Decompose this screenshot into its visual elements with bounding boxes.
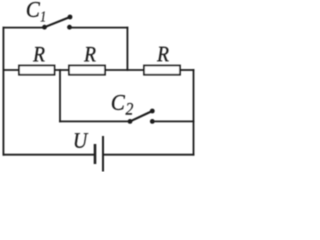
switch C2 blade end dot (150, 109, 155, 114)
wire right lead of R3 (180, 69, 194, 71)
label C2 subscript 2 (126, 103, 134, 115)
label C1 subscript 1 (40, 11, 44, 21)
resistor R1 (19, 66, 55, 75)
switch C1 right contact dot (67, 25, 72, 30)
wire top right (switch C1 to corner) (70, 27, 128, 29)
switch C2 left contact dot (128, 119, 133, 124)
wire between R1 and R2 (55, 69, 70, 71)
wire C2 row left (60, 120, 130, 122)
wire right vertical (193, 70, 195, 155)
label R of R2 (84, 47, 96, 61)
label C1 letter C (27, 2, 40, 17)
label R of R3 (157, 47, 169, 61)
battery short plate (negative) (94, 144, 97, 164)
resistor R3 (144, 66, 180, 75)
wire bottom right (battery to right) (103, 154, 194, 156)
switch C2 blade (130, 111, 152, 121)
wire C2 row right (152, 120, 193, 122)
switch C1 left contact dot (42, 25, 47, 30)
wire between R2 and R3 (105, 69, 144, 71)
label R of R1 (33, 47, 45, 61)
wire middle left lead (3, 69, 19, 71)
switch C1 blade end dot (68, 15, 73, 20)
wire branch vertical down to C2 row (59, 70, 61, 121)
switch C1 blade (45, 17, 71, 27)
label U (battery voltage) (75, 133, 89, 148)
wire bottom left (to battery) (3, 154, 94, 156)
wire left vertical (2, 28, 4, 155)
battery long plate (positive) (102, 136, 104, 172)
wire top left (to switch C1) (3, 27, 44, 29)
switch C2 right contact dot (150, 119, 155, 124)
wire drop from top corner to middle node (126, 28, 128, 70)
label C2 letter C (112, 95, 125, 110)
resistor R2 (69, 66, 105, 75)
